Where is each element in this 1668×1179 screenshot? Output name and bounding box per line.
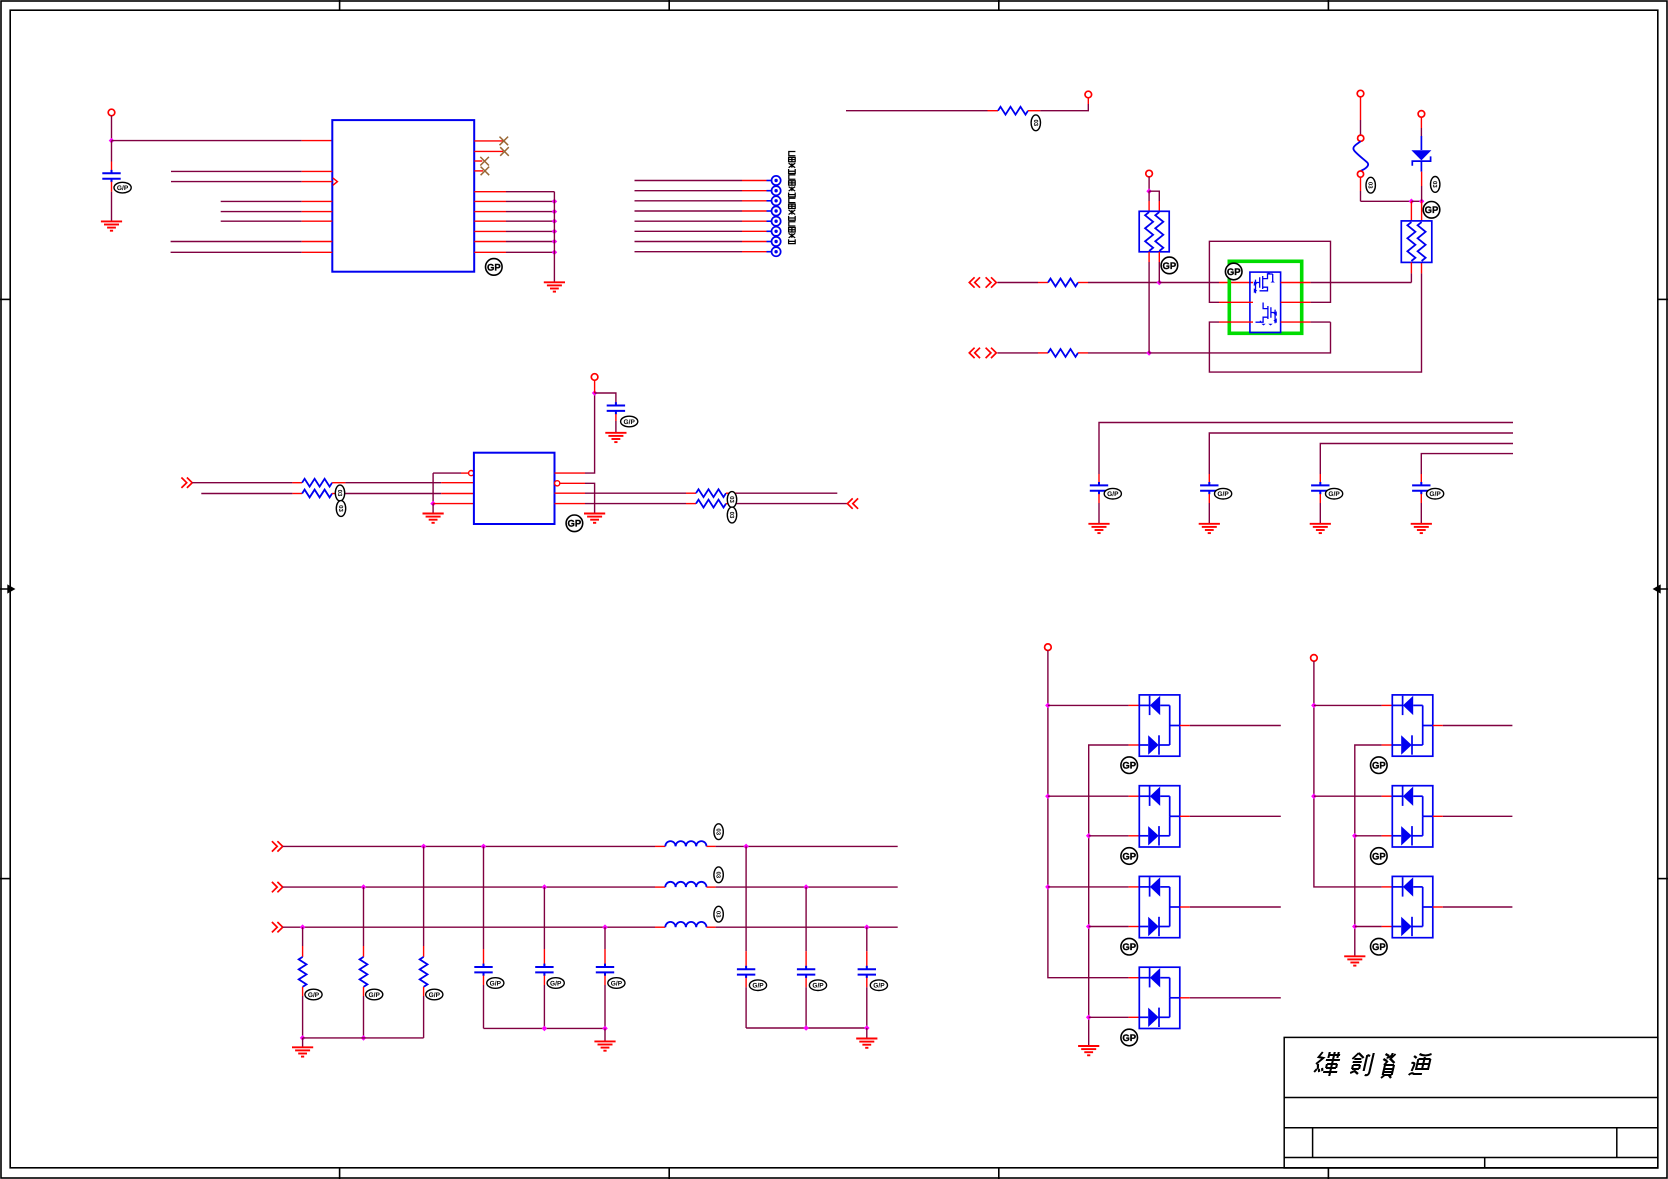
label GP RP1 bbox=[1161, 257, 1178, 274]
connector pad 1 bbox=[767, 180, 772, 182]
wire IN1 b bbox=[1088, 282, 1159, 284]
pin stub C15 top bbox=[745, 951, 747, 969]
pin stub C13 bottom bbox=[543, 976, 545, 986]
pin stub R5 left bbox=[292, 482, 302, 484]
ground cap rail 2 bbox=[856, 1039, 877, 1048]
pin stub U2 R2 bbox=[560, 482, 585, 484]
junction bus L pin2 4 bbox=[1086, 1015, 1092, 1021]
wire fuse top b bbox=[1360, 120, 1362, 135]
ground C9 bbox=[1310, 524, 1331, 533]
resistor R8 bbox=[696, 500, 726, 508]
junction bus y241.5 bbox=[552, 239, 558, 245]
wire cap net 3 bbox=[1320, 444, 1513, 475]
pin stub U1 right y211.6 bbox=[474, 211, 506, 213]
dual diode D5 bbox=[1139, 967, 1180, 1028]
wire D5 out bbox=[1190, 997, 1281, 999]
wire C12 upper bbox=[483, 846, 485, 949]
junction bus y221.2 bbox=[552, 218, 558, 224]
connector pad 7 bbox=[767, 241, 772, 243]
junction bus y252.3 bbox=[552, 250, 558, 256]
label G/P C17 bbox=[870, 980, 887, 991]
pin stub D4 out bbox=[1180, 906, 1190, 908]
label L1 bbox=[714, 824, 723, 840]
junction bus L pin1 2 bbox=[1045, 793, 1051, 799]
ground C8 bbox=[1199, 524, 1220, 533]
wire bus3 right bbox=[716, 926, 898, 928]
pin stub R9 bottom bbox=[302, 987, 304, 996]
pin stub C16 bottom bbox=[805, 978, 807, 988]
no-connect x4 bbox=[481, 167, 490, 176]
wire bus3 left bbox=[283, 926, 655, 928]
wire R7 out bbox=[736, 492, 837, 494]
pin stub U1 right y252.3 bbox=[474, 251, 506, 253]
wire U1 left pin y252.3 bbox=[171, 251, 302, 253]
dual diode D4 bbox=[1139, 876, 1180, 937]
pin stub D8 b bbox=[1382, 926, 1393, 928]
pin stub U3 C left bbox=[1219, 321, 1253, 323]
wire C9 to ground bbox=[1319, 503, 1321, 524]
pin stub C13 top bbox=[543, 949, 545, 967]
junction bus R pin2 3 bbox=[1352, 924, 1358, 930]
pin stub D2 b bbox=[1129, 744, 1140, 746]
pin stub D5 a bbox=[1129, 977, 1140, 979]
wire bus L2 to D3 pin2 bbox=[1089, 926, 1129, 928]
pin stub conn pin7 bbox=[742, 241, 767, 243]
pin stub RP2 t1b bbox=[1410, 201, 1412, 221]
pin stub R3 left bbox=[1038, 282, 1048, 284]
pin stub U1 left y241.5 bbox=[302, 241, 333, 243]
title block bbox=[1284, 1037, 1658, 1168]
wire C14 lower bbox=[604, 985, 606, 1028]
dual diode D7 bbox=[1392, 786, 1433, 847]
pin stub U1 right y231.4 bbox=[474, 230, 506, 232]
wire C13 upper bbox=[543, 887, 545, 949]
junction RP1 right-bottom bbox=[1157, 280, 1163, 286]
wire IN2 b bbox=[1088, 352, 1149, 354]
junction bus R pin1 2 bbox=[1311, 793, 1317, 799]
wire bus L to D2 pin1 bbox=[1048, 704, 1129, 706]
pin stub L3 right bbox=[707, 926, 716, 928]
pin stub C1 bottom bbox=[111, 182, 113, 192]
label L2 bbox=[714, 867, 723, 883]
label D8 bbox=[1371, 938, 1388, 955]
inductor L2 bbox=[665, 882, 706, 887]
wire conn pin2 bbox=[635, 190, 743, 192]
wire U1 right y211.6 bbox=[506, 211, 554, 213]
resistor pack RP2 bbox=[1401, 221, 1432, 263]
wire conn pin4 bbox=[635, 210, 743, 212]
connector net labels bbox=[789, 152, 796, 244]
label L3 bbox=[714, 906, 723, 922]
pin stub D3 b bbox=[1129, 835, 1140, 837]
wire cap net 2 bbox=[1209, 433, 1513, 474]
connector pad 5 bbox=[767, 220, 772, 222]
junction VCC6 bbox=[592, 390, 598, 396]
port OUT1 bbox=[847, 498, 858, 508]
pin stub RP1 b2 bbox=[1158, 252, 1160, 262]
wire bus R to D6 pin1 bbox=[1314, 704, 1382, 706]
pin stub U1 right y241.5 bbox=[474, 241, 506, 243]
no-connect x2 bbox=[500, 147, 509, 156]
wire zener to junction b bbox=[1421, 186, 1423, 201]
junction bus L pin2 2 bbox=[1086, 833, 1092, 839]
wire U2 R2 down bbox=[585, 483, 595, 513]
label D4 bbox=[1121, 938, 1138, 955]
ground C7 bbox=[1088, 524, 1109, 533]
capacitor C12 bbox=[474, 964, 492, 976]
pin stub C11 top bbox=[615, 402, 617, 405]
mosfet Q2 bbox=[1256, 303, 1277, 326]
inductor L1 bbox=[665, 841, 706, 846]
label D3 bbox=[1121, 848, 1138, 865]
wire net to R2 bbox=[846, 110, 988, 112]
pin stub R8 left bbox=[686, 503, 696, 505]
wire bus L2 to D2 pin2 bbox=[1089, 835, 1129, 837]
label G/P C16 bbox=[809, 980, 826, 991]
wire VCC6 to C11 bbox=[595, 393, 616, 402]
pin stub C17 bottom bbox=[866, 978, 868, 988]
pin stub conn pin8 bbox=[742, 251, 767, 253]
junction bus y211.6 bbox=[552, 209, 558, 215]
label D5 bbox=[1121, 1029, 1138, 1046]
pin stub U1 left y171.4 bbox=[302, 170, 333, 172]
mosfet Q1 bbox=[1254, 272, 1275, 293]
pin stub conn pin3 bbox=[742, 200, 767, 202]
wire U1 right y221.2 bbox=[506, 220, 554, 222]
pin stub D4 a bbox=[1129, 886, 1140, 888]
dual diode D8 bbox=[1392, 876, 1433, 937]
pin stub D8 out bbox=[1433, 906, 1443, 908]
wire bus2 right bbox=[716, 886, 898, 888]
label GP U1 bbox=[486, 259, 503, 276]
pin stub C17 top bbox=[866, 951, 868, 969]
label G/P R9 bbox=[305, 989, 322, 1000]
wire R9 lower bbox=[302, 996, 304, 1038]
pin stub L1 right bbox=[707, 845, 716, 847]
wire U3 A to RP2 bbox=[1311, 282, 1412, 284]
junction RP1 top bbox=[1146, 188, 1152, 194]
port IN1 bbox=[969, 277, 996, 287]
bubble U2 L1 bbox=[469, 471, 474, 476]
pin stub D8 a bbox=[1382, 886, 1393, 888]
junction C15 top bbox=[743, 844, 749, 850]
pin stub D7 out bbox=[1433, 815, 1443, 817]
pin stub U2 R3 bbox=[555, 492, 586, 494]
wire rail2 to ground bbox=[866, 1028, 868, 1039]
wire C1 to ground bbox=[111, 192, 113, 222]
connector pad 4 bbox=[767, 210, 772, 212]
wire RP1 b2 to IN1 bbox=[1158, 262, 1160, 283]
junction bus L pin1 3 bbox=[1045, 884, 1051, 890]
junction R9 top bbox=[300, 924, 306, 930]
power symbol VCC4 fuse bbox=[1357, 90, 1364, 97]
junction bus R pin1 1 bbox=[1311, 703, 1317, 709]
junction rail R10 bbox=[361, 1035, 367, 1041]
label R6 bbox=[336, 501, 345, 517]
pin stub U1 right y221.2 bbox=[474, 220, 506, 222]
wire C15 lower bbox=[745, 987, 747, 1028]
label G/P C11 bbox=[621, 416, 638, 427]
nc stub U1 r2 bbox=[474, 150, 503, 152]
pin stub C9 bottom bbox=[1319, 494, 1321, 503]
wire resistor rail bbox=[303, 1037, 424, 1039]
junction RP2 t1 bbox=[1409, 199, 1415, 205]
wire U2 L1 down bbox=[432, 473, 434, 504]
connector pad 2 bbox=[767, 190, 772, 192]
pin stub D2 a bbox=[1129, 704, 1140, 706]
pin stub R4 left bbox=[1038, 352, 1048, 354]
ground C1 bbox=[101, 221, 122, 230]
wire D3 out bbox=[1190, 815, 1281, 817]
ground U2 left bbox=[423, 514, 444, 523]
wire D7 out bbox=[1443, 815, 1513, 817]
junction R11 top bbox=[421, 844, 427, 850]
pin stub U3 A left bbox=[1219, 282, 1253, 284]
wire R11 upper bbox=[423, 846, 425, 946]
port IN2 bbox=[969, 348, 996, 358]
capacitor C15 bbox=[737, 966, 755, 978]
junction rail C16 bbox=[803, 1025, 809, 1031]
wire power to junction bbox=[111, 116, 113, 141]
resistor R2 bbox=[998, 107, 1028, 115]
wire conn pin3 bbox=[635, 200, 743, 202]
wire VCC6 stub bbox=[594, 380, 596, 393]
wire RP1 b1 to IN2 bbox=[1148, 262, 1150, 353]
pin stub L2 left bbox=[655, 886, 665, 888]
pin stub RP1 t2 bbox=[1158, 201, 1160, 211]
loop wire U3 B bbox=[1209, 241, 1330, 302]
resistor R9 bbox=[299, 957, 307, 987]
pin stub U2 L3 bbox=[441, 493, 474, 495]
wire C7 to ground bbox=[1098, 503, 1100, 524]
junction R10 top bbox=[361, 884, 367, 890]
wire C11 to ground bbox=[615, 421, 617, 433]
wire bus L2 to D4 pin2 bbox=[1089, 1016, 1129, 1018]
pin stub D2 out bbox=[1180, 725, 1190, 727]
pin stub conn pin1 bbox=[742, 180, 767, 182]
capacitor C10 bbox=[1412, 482, 1430, 494]
wire D2 out bbox=[1190, 725, 1281, 727]
nc stub U1 r1 bbox=[474, 140, 503, 142]
power symbol VCC3 bbox=[1146, 170, 1153, 177]
pin stub D7 a bbox=[1382, 795, 1393, 797]
capacitor C11 bbox=[607, 402, 625, 414]
label R2 bbox=[1031, 115, 1040, 131]
wire U1 gnd bus bbox=[553, 192, 555, 283]
pin stub R3 right bbox=[1078, 282, 1088, 284]
pin stub C12 top bbox=[483, 949, 485, 967]
capacitor C14 bbox=[596, 964, 614, 976]
resistor pack RP1 bbox=[1139, 211, 1169, 252]
ground diode col R bbox=[1344, 956, 1365, 965]
wire U1 left pin y221.2 bbox=[221, 220, 302, 222]
pin stub conn pin2 bbox=[742, 190, 767, 192]
pin stub R7 left bbox=[686, 492, 696, 494]
pin stub C11 bottom bbox=[615, 414, 617, 421]
port BUS3 bbox=[272, 922, 283, 932]
pin stub U3 B left bbox=[1219, 301, 1253, 303]
pin stub C8 top bbox=[1208, 474, 1210, 485]
wire IN1 c bbox=[1159, 282, 1219, 284]
IC U2 bbox=[474, 453, 555, 524]
pin stub C14 bottom bbox=[604, 976, 606, 986]
wire C17 upper bbox=[866, 927, 868, 951]
junction C14 top bbox=[602, 924, 608, 930]
wire IN2 a bbox=[997, 352, 1038, 354]
wire bus2 left bbox=[283, 886, 655, 888]
pin stub C7 bottom bbox=[1098, 494, 1100, 503]
wire U1 right y231.4 bbox=[506, 230, 554, 232]
pin stub C7 top bbox=[1098, 474, 1100, 485]
port BUS2 bbox=[272, 882, 283, 892]
label R8 bbox=[727, 507, 736, 523]
wire U1 left pin y171.4 bbox=[171, 170, 302, 172]
wire IN3 bbox=[192, 482, 292, 484]
pin stub C14 top bbox=[604, 949, 606, 967]
wire conn pin5 bbox=[635, 220, 743, 222]
capacitor C17 bbox=[858, 966, 876, 978]
bubble U2 R2 bbox=[555, 481, 560, 486]
label G/P C14 bbox=[608, 978, 625, 989]
wire U1 left pin y201.4 bbox=[221, 200, 302, 202]
pin stub U1 left y252.3 bbox=[302, 251, 333, 253]
label U3 bbox=[1225, 263, 1242, 280]
pin stub D5 b bbox=[1129, 1016, 1140, 1018]
wire C13 lower bbox=[543, 985, 545, 1028]
pin stub R9 top bbox=[302, 946, 304, 957]
capacitor C9 bbox=[1311, 482, 1329, 494]
wire C10 to ground bbox=[1420, 503, 1422, 524]
junction rail C14 bbox=[602, 1026, 608, 1032]
junction C12 top bbox=[481, 844, 487, 850]
wire cap rail 2 bbox=[746, 1027, 867, 1029]
pin stub C1 top bbox=[111, 162, 113, 174]
pin stub R11 top bbox=[423, 946, 425, 957]
resistor R10 bbox=[360, 957, 368, 987]
junction bus R pin2 2 bbox=[1352, 833, 1358, 839]
wire RP1 pin2 top bbox=[1149, 191, 1159, 201]
wire fuse to RP2 bbox=[1361, 200, 1412, 202]
wire bus R2 top bbox=[1355, 745, 1382, 956]
wire junction to zener bbox=[1411, 200, 1421, 202]
capacitor C1 bbox=[102, 170, 120, 182]
wire IN4 bbox=[201, 493, 292, 495]
pin stub U1 left y211.6 bbox=[302, 211, 333, 213]
junction A1 bbox=[109, 138, 115, 144]
wire D4 out bbox=[1190, 906, 1281, 908]
label R7 bbox=[727, 492, 736, 508]
pin stub RP1 t1 bbox=[1148, 201, 1150, 211]
dual diode D6 bbox=[1392, 695, 1433, 756]
wire U2 R3 bbox=[585, 492, 686, 494]
wire zener top a bbox=[1420, 117, 1422, 128]
label R5 bbox=[335, 485, 344, 501]
wire rail1 to ground bbox=[604, 1028, 606, 1041]
junction bus y201.4 bbox=[552, 199, 558, 205]
wire C15 upper bbox=[745, 846, 747, 951]
label G/P C12 bbox=[487, 978, 504, 989]
wire RP2 b1 down bbox=[1410, 273, 1412, 282]
wire U1 right y191.7 bbox=[506, 191, 554, 193]
pin stub U1 right y201.4 bbox=[474, 200, 506, 202]
pin stub D4 b bbox=[1129, 926, 1140, 928]
wire bus R2 to D7 pin2 bbox=[1355, 926, 1382, 928]
pin stub RP2 b1 bbox=[1410, 262, 1412, 273]
capacitor C8 bbox=[1200, 482, 1218, 494]
pin stub R2 right bbox=[1028, 110, 1040, 112]
clock chevron U1 bbox=[333, 178, 338, 185]
wire C16 upper bbox=[805, 887, 807, 951]
wire R2 to power bbox=[1040, 104, 1088, 111]
power symbol VCC2 bbox=[1085, 91, 1092, 98]
junction bus y231.4 bbox=[552, 229, 558, 235]
junction U2 L4 bbox=[430, 501, 436, 507]
optocoupler U3 outline bbox=[1229, 261, 1301, 333]
wire U1 left pin y211.6 bbox=[221, 211, 302, 213]
wire U2 R1 up bbox=[585, 393, 595, 473]
power symbol VCC1 bbox=[108, 109, 115, 116]
junction rail R9 bbox=[300, 1035, 306, 1041]
pin stub U1 pin1 bbox=[302, 140, 333, 142]
pin stub U1 clock bbox=[302, 181, 333, 183]
resistor R11 bbox=[420, 957, 428, 987]
power symbol VCC6 bbox=[591, 374, 598, 381]
label G/P C15 bbox=[749, 980, 766, 991]
pin stub R10 bottom bbox=[363, 987, 365, 996]
ground C10 bbox=[1411, 524, 1432, 533]
ground resistor rail bbox=[292, 1047, 313, 1056]
IC U1 bbox=[332, 120, 474, 272]
pin stub C10 top bbox=[1420, 474, 1422, 485]
pin stub C16 top bbox=[805, 951, 807, 969]
wire U3 C right bbox=[1311, 321, 1331, 323]
wire C16 lower bbox=[805, 987, 807, 1028]
pin stub U3 C right bbox=[1281, 321, 1311, 323]
wire VCC8 bus bbox=[1314, 661, 1382, 887]
junction RP2 t2 bbox=[1419, 199, 1425, 205]
mosfet pair U3 inner box bbox=[1250, 272, 1281, 332]
wire D6 out bbox=[1443, 725, 1513, 727]
pin stub R2 left bbox=[988, 110, 999, 112]
pin stub D6 b bbox=[1382, 744, 1393, 746]
wire zener top b bbox=[1420, 128, 1422, 136]
junction bus L pin2 3 bbox=[1086, 924, 1092, 930]
wire U1 clock pin bbox=[171, 181, 302, 183]
label F1 bbox=[1366, 177, 1375, 193]
label G/P C9 bbox=[1326, 488, 1343, 499]
label G/P R11 bbox=[426, 989, 443, 1000]
pin stub U2 L4 bbox=[433, 503, 474, 505]
pin stub U1 left y201.4 bbox=[302, 200, 333, 202]
ground C11 bbox=[605, 433, 626, 442]
wire bus1 left bbox=[283, 845, 655, 847]
loop wire U3 C bbox=[1209, 273, 1421, 372]
pin stub R6 left bbox=[292, 493, 302, 495]
capacitor C7 bbox=[1090, 482, 1108, 494]
resistor R6 bbox=[302, 490, 332, 498]
label D7 bbox=[1371, 848, 1388, 865]
label C6 RP2 bbox=[1423, 202, 1440, 219]
wire C14 upper bbox=[604, 927, 606, 949]
pin stub R11 bottom bbox=[423, 987, 425, 996]
capacitor C16 bbox=[797, 966, 815, 978]
wire R10 lower bbox=[363, 996, 365, 1038]
ground diode col L bbox=[1078, 1046, 1099, 1055]
capacitor C13 bbox=[535, 964, 553, 976]
ground U1 bus bbox=[544, 282, 565, 291]
wire rail to ground bbox=[302, 1038, 304, 1047]
pin stub R7 right bbox=[726, 492, 736, 494]
